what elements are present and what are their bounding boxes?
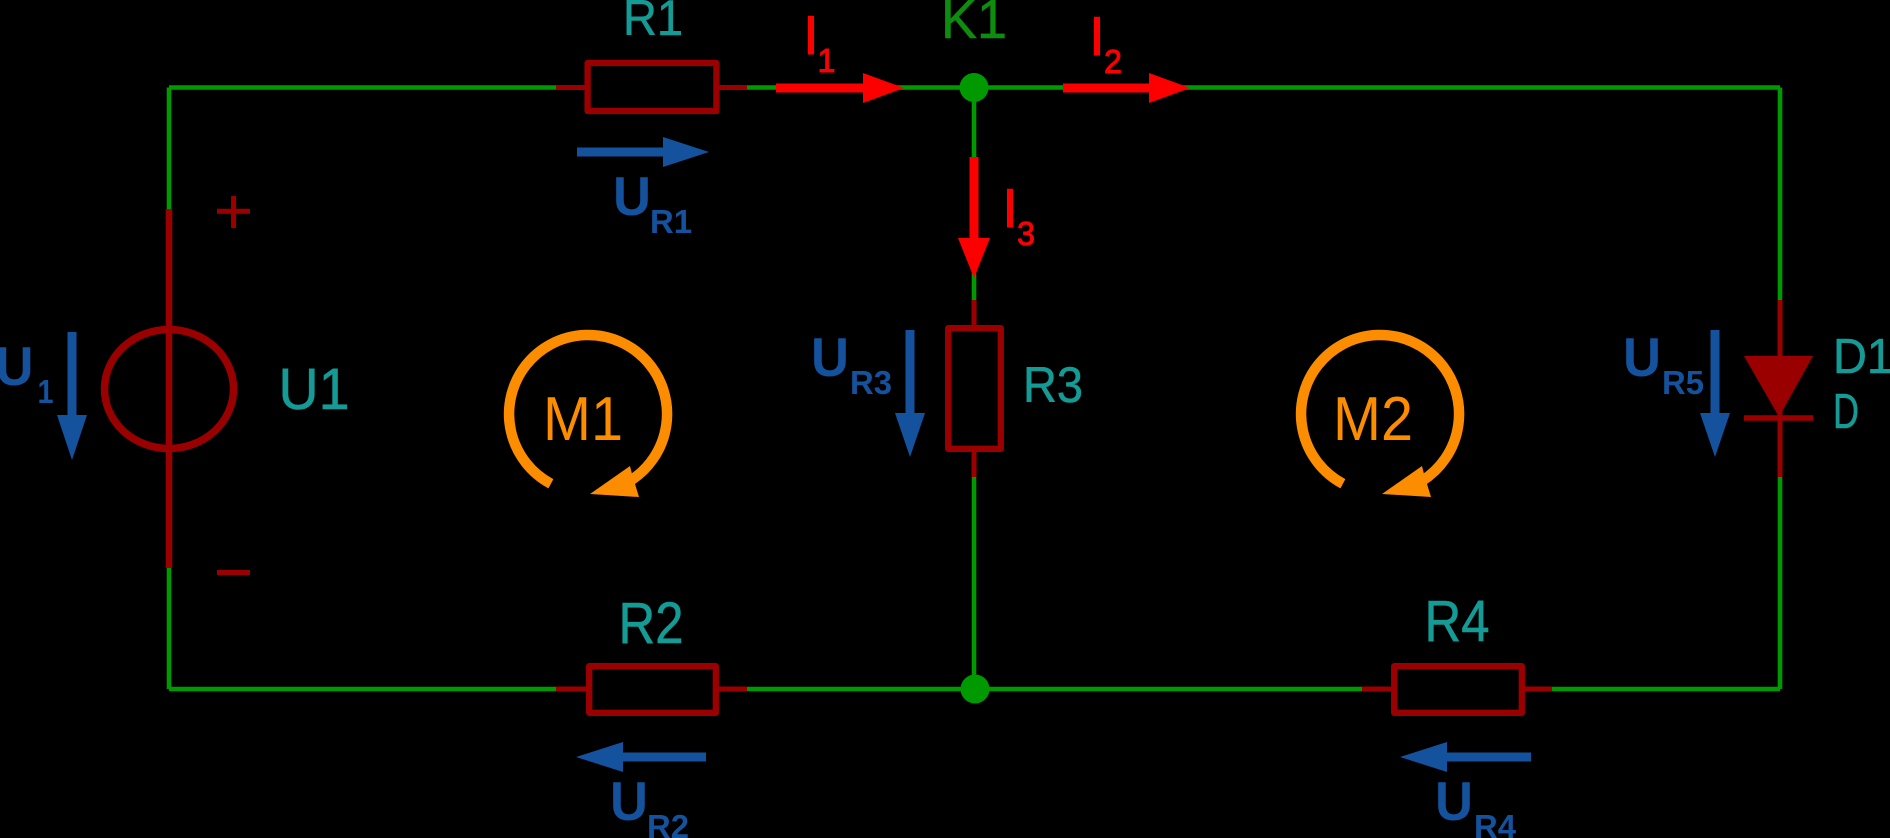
svg-text:M1: M1 <box>543 385 623 454</box>
svg-text:D: D <box>1833 385 1859 439</box>
svg-text:R2: R2 <box>647 808 689 838</box>
svg-text:I: I <box>1089 5 1104 67</box>
svg-text:R1: R1 <box>623 0 683 46</box>
svg-text:R3: R3 <box>850 364 892 401</box>
svg-text:M2: M2 <box>1333 385 1413 454</box>
svg-text:U: U <box>1435 770 1473 832</box>
svg-text:K1: K1 <box>941 0 1007 50</box>
svg-text:D1: D1 <box>1833 330 1890 384</box>
svg-text:R4: R4 <box>1425 589 1490 654</box>
svg-text:U: U <box>1623 326 1661 388</box>
svg-text:2: 2 <box>1104 43 1122 80</box>
svg-text:U1: U1 <box>279 357 350 422</box>
svg-text:I: I <box>1002 177 1017 239</box>
svg-text:R3: R3 <box>1023 357 1083 413</box>
svg-text:I: I <box>803 4 818 66</box>
svg-text:R5: R5 <box>1662 364 1704 401</box>
svg-text:R1: R1 <box>650 203 692 240</box>
svg-text:R2: R2 <box>619 591 684 656</box>
svg-text:1: 1 <box>38 373 54 410</box>
svg-text:U: U <box>610 770 648 832</box>
svg-text:3: 3 <box>1017 215 1035 252</box>
svg-text:R4: R4 <box>1474 808 1517 838</box>
svg-text:1: 1 <box>818 42 836 79</box>
svg-text:U: U <box>0 335 34 397</box>
svg-text:U: U <box>811 326 849 388</box>
svg-text:U: U <box>613 165 651 227</box>
